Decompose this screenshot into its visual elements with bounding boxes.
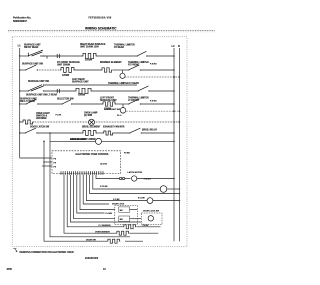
svg-text:SURFACE UNIT SW: SURFACE UNIT SW bbox=[28, 80, 50, 83]
switch door latch switch bbox=[25, 126, 50, 134]
node junction x44 rung7 bbox=[43, 141, 45, 143]
resistor bottom door switch heater bbox=[86, 239, 120, 243]
wire rung1 right bbox=[97, 55, 137, 57]
wire rung6 bbox=[37, 132, 82, 134]
schematic dotted border bbox=[12, 37, 187, 247]
rung 1 wire L1 to switch bbox=[20, 55, 28, 57]
wire fanout 3 to door lock motor box bbox=[70, 175, 141, 222]
svg-text:UNIT 1500W: UNIT 1500W bbox=[57, 65, 71, 67]
resistor left front surface unit element bbox=[100, 97, 117, 110]
svg-text:RIGHT REAR SURFACE: RIGHT REAR SURFACE bbox=[80, 43, 106, 46]
node rung7 L2 bbox=[173, 141, 175, 143]
wire rung4 bbox=[38, 103, 62, 105]
svg-text:SURFACE UNIT SW: SURFACE UNIT SW bbox=[22, 63, 44, 66]
node junction x44 pin P5 bbox=[43, 161, 44, 162]
svg-text:RT REAR: RT REAR bbox=[114, 46, 124, 49]
op box electronic oven control U1 bbox=[52, 151, 121, 174]
switch thermal limiter left rear bbox=[108, 82, 149, 91]
svg-text:DENOTES CONNECTION ON ELECTRON: DENOTES CONNECTION ON ELECTRONIC OVEN bbox=[20, 252, 74, 254]
resistor left rear surface unit element bbox=[72, 78, 92, 97]
node latch motor L2 bbox=[173, 178, 175, 180]
svg-text:BROIL RELAY: BROIL RELAY bbox=[142, 128, 158, 131]
switch S1 surface unit switch right rear bbox=[24, 44, 47, 59]
switch thermal limiter left front bbox=[128, 96, 149, 104]
lamp PL1 signal light bbox=[120, 70, 125, 78]
node rung4 L2 bbox=[173, 103, 175, 105]
svg-text:SW RT REAR: SW RT REAR bbox=[24, 46, 39, 49]
connector P1 comb on EOC bottom edge bbox=[61, 171, 103, 175]
wire into EOC pin P5 bbox=[44, 161, 52, 163]
footnote arrow bbox=[13, 249, 17, 252]
wire rung4 right bbox=[116, 103, 129, 105]
wire P3 lower pin bbox=[130, 218, 142, 220]
svg-text:P-7 SENSOR: P-7 SENSOR bbox=[99, 225, 112, 227]
wire rung6 middle bbox=[97, 132, 103, 134]
node rung3 L2 bbox=[173, 90, 175, 92]
svg-text:DOOR LOCK SW: DOOR LOCK SW bbox=[143, 211, 159, 213]
motor latch motor bbox=[128, 171, 152, 181]
resistor warmer element bbox=[100, 61, 122, 72]
wire door switch tail bbox=[125, 240, 143, 242]
rung 5 wire L1 to breaker bbox=[20, 121, 22, 123]
circuit breaker oven light housing bbox=[22, 113, 50, 124]
rung 3 wire L1 to switch bbox=[20, 90, 28, 92]
bus N bbox=[178, 44, 180, 242]
svg-text:29533O300: 29533O300 bbox=[85, 258, 99, 260]
node PL1 N bbox=[179, 76, 181, 78]
node rung6 L2 bbox=[173, 132, 175, 134]
wire rung3 upper line bbox=[44, 84, 138, 86]
switch surface unit switch left front bbox=[20, 98, 38, 105]
svg-text:WARMER ELEMENT: WARMER ELEMENT bbox=[100, 61, 122, 64]
rung 6 wire L1 to switch bbox=[20, 132, 25, 134]
node oven relay N bbox=[179, 200, 181, 202]
svg-text:P-11 BK: P-11 BK bbox=[100, 186, 108, 188]
svg-text:P10 BK: P10 BK bbox=[144, 179, 152, 181]
svg-text:N: N bbox=[178, 44, 180, 48]
resistor door seal heater bbox=[99, 225, 149, 229]
svg-text:CLOCK: CLOCK bbox=[100, 164, 108, 166]
motor oven relay coil bbox=[113, 197, 153, 203]
wire fanout 6 to P3 connector bbox=[80, 175, 115, 210]
svg-text:THERMAL LIMITER LT REAR: THERMAL LIMITER LT REAR bbox=[108, 82, 139, 85]
rung 4 wire L1 to switch bbox=[20, 103, 26, 105]
svg-text:UNIT 2100W 120V: UNIT 2100W 120V bbox=[80, 47, 99, 49]
svg-text:OVEN LIGHT SW: OVEN LIGHT SW bbox=[104, 109, 120, 111]
wire rung4 to L2 bbox=[140, 103, 174, 105]
wire P3 upper pin bbox=[130, 209, 138, 211]
svg-text:SURFACE UNIT: SURFACE UNIT bbox=[24, 44, 41, 47]
wire fanout 1 bbox=[64, 175, 116, 233]
wire fanout 8 to oven relay bbox=[86, 175, 147, 201]
switch thermal limiter right front bbox=[128, 61, 149, 71]
node junction rung6 bbox=[49, 132, 51, 134]
wire branch down from rung6 bbox=[49, 133, 51, 141]
switch broil limit bbox=[129, 128, 157, 133]
wire fanout 10 to convection motor bbox=[93, 175, 160, 189]
svg-text:DOOR LOCK: DOOR LOCK bbox=[112, 203, 125, 205]
node PL2 N bbox=[179, 110, 181, 112]
svg-text:THERMAL LIMITER: THERMAL LIMITER bbox=[114, 44, 135, 47]
svg-text:WIRING SCHEMATIC: WIRING SCHEMATIC bbox=[85, 26, 117, 30]
wire oven relay to N bbox=[153, 200, 180, 202]
resistor exhaust fan motor winding bbox=[103, 126, 125, 135]
wire heater tail bbox=[137, 226, 161, 228]
svg-text:COOLING FAN: COOLING FAN bbox=[70, 138, 86, 141]
svg-text:SELECTOR SW: SELECTOR SW bbox=[57, 99, 74, 101]
svg-text:2100W: 2100W bbox=[85, 60, 93, 62]
svg-text:DOOR LATCH SW: DOOR LATCH SW bbox=[30, 126, 50, 129]
header publication number bbox=[13, 17, 32, 24]
wire rung5 to N bbox=[95, 121, 180, 123]
wire rung6 right bbox=[113, 132, 129, 134]
node rung5 N bbox=[179, 121, 181, 123]
wire L1 into EOC pin P9 bbox=[20, 157, 52, 159]
svg-text:5995538847: 5995538847 bbox=[13, 20, 28, 23]
wire rung2 right bbox=[113, 69, 129, 71]
wire lamp PL2 to N bbox=[126, 110, 180, 112]
svg-text:THERMAL LIMITER: THERMAL LIMITER bbox=[128, 61, 149, 64]
resistor oven temp sensor bbox=[95, 231, 129, 235]
box door lock motor bbox=[141, 211, 162, 225]
wire fanout 2 bbox=[67, 175, 123, 227]
switch surface unit switch right front bbox=[22, 63, 44, 71]
connector P1 ticks rung3 bbox=[56, 89, 58, 93]
svg-text:LATCH MOTOR: LATCH MOTOR bbox=[128, 171, 143, 174]
motor cooling fan bbox=[70, 138, 102, 144]
switch surface unit switch left rear double pole bbox=[26, 80, 57, 96]
rung 2 wire L1 to switch bbox=[20, 69, 26, 71]
svg-text:FEF352BADA V08: FEF352BADA V08 bbox=[89, 17, 112, 20]
wire lamp PL1 to N bbox=[125, 76, 179, 78]
wire fanout 7 to P3 top bbox=[83, 175, 109, 204]
connector plug pair latch motor bbox=[119, 177, 130, 179]
svg-text:P2 BK: P2 BK bbox=[124, 153, 130, 155]
svg-text:P-8 RD: P-8 RD bbox=[150, 64, 157, 66]
svg-text:SURFACE UNIT: SURFACE UNIT bbox=[72, 81, 89, 84]
svg-text:HOUSING: HOUSING bbox=[36, 118, 47, 120]
header rule bbox=[8, 30, 215, 32]
wire fanout 5 label bbox=[77, 175, 105, 213]
wire rung5 middle bbox=[34, 121, 89, 123]
switch selector switch bbox=[57, 99, 74, 105]
wire sensor tail bbox=[130, 232, 159, 234]
wire convection fan to N bbox=[167, 188, 180, 190]
svg-text:P-5 W: P-5 W bbox=[56, 115, 62, 117]
svg-text:(2) 40W: (2) 40W bbox=[84, 114, 93, 117]
svg-text:Publication No.: Publication No. bbox=[13, 17, 32, 20]
wire latch motor to L2 bbox=[137, 178, 174, 180]
svg-text:P-4 BK: P-4 BK bbox=[106, 212, 113, 215]
svg-text:P-8 RD: P-8 RD bbox=[150, 101, 157, 103]
node fanout9 N bbox=[179, 193, 181, 195]
resistor right rear surface unit element bbox=[80, 43, 106, 62]
svg-text:LEFT REAR: LEFT REAR bbox=[72, 78, 85, 81]
wire rung2 bbox=[37, 69, 60, 71]
wire rung1 middle bbox=[40, 55, 82, 57]
wire rung2 middle bbox=[75, 69, 101, 71]
svg-text:ELECTRONIC OVEN CONTROL: ELECTRONIC OVEN CONTROL bbox=[76, 154, 110, 156]
node rung1 L2 bbox=[173, 55, 175, 57]
wire fanout 9 bbox=[90, 175, 180, 194]
wire rung6 to L2 bbox=[141, 132, 174, 134]
svg-text:4P05: 4P05 bbox=[7, 268, 13, 271]
svg-text:RT FRONT SURFACE: RT FRONT SURFACE bbox=[57, 61, 80, 64]
svg-text:OVEN SENSOR: OVEN SENSOR bbox=[95, 232, 110, 234]
svg-text:1500W: 1500W bbox=[78, 95, 86, 97]
wire fanout 4 to P3 connector bbox=[74, 175, 115, 219]
wire rung2 to L2 bbox=[140, 69, 174, 71]
svg-text:1200W: 1200W bbox=[62, 75, 70, 77]
svg-text:OVEN LAMP: OVEN LAMP bbox=[84, 112, 98, 115]
svg-text:EXHAUST FAN MTR: EXHAUST FAN MTR bbox=[103, 126, 125, 129]
wire rung3 right bbox=[92, 90, 138, 92]
wire rung7 to L2 bbox=[102, 140, 175, 142]
connector P1 ticks rung1 bbox=[56, 54, 58, 58]
resistor broil element bbox=[70, 127, 101, 141]
wire rung3 to L2 bbox=[149, 90, 174, 92]
svg-text:SURFACE UNIT SW LT REAR: SURFACE UNIT SW LT REAR bbox=[26, 93, 57, 96]
lamp oven lamp bbox=[84, 112, 98, 126]
motor convection fan bbox=[160, 186, 167, 193]
wire stub EOC pin P6 bbox=[42, 165, 52, 167]
rung 7 wire to fan motor bbox=[50, 140, 96, 142]
bus L1 bbox=[18, 44, 22, 159]
wire fanout 11 to latch motor bbox=[96, 175, 119, 179]
lamp PL2 signal light bbox=[104, 104, 126, 117]
connector P3 door lock switch block bbox=[112, 203, 137, 224]
svg-text:BROIL ELEMENT: BROIL ELEMENT bbox=[82, 127, 101, 129]
svg-text:B LOW: B LOW bbox=[138, 197, 145, 199]
switch thermal limiter right rear bbox=[114, 44, 147, 57]
wire rung4 middle bbox=[72, 103, 102, 105]
wire vertical x50 to bottom fanout bbox=[50, 141, 130, 237]
node rung2 L2 bbox=[173, 69, 175, 71]
node convection fan N bbox=[179, 188, 181, 190]
wire rung3 lower line bbox=[44, 90, 76, 92]
bus L2 bbox=[172, 44, 176, 242]
wire vertical x44 to EOC and bottom bbox=[44, 141, 107, 241]
wire rung1 to L2 bbox=[147, 55, 174, 57]
svg-text:DOOR SW: DOOR SW bbox=[86, 240, 96, 242]
svg-text:P-1 BK: P-1 BK bbox=[113, 199, 120, 201]
resistor right front surface unit element bbox=[57, 61, 80, 77]
